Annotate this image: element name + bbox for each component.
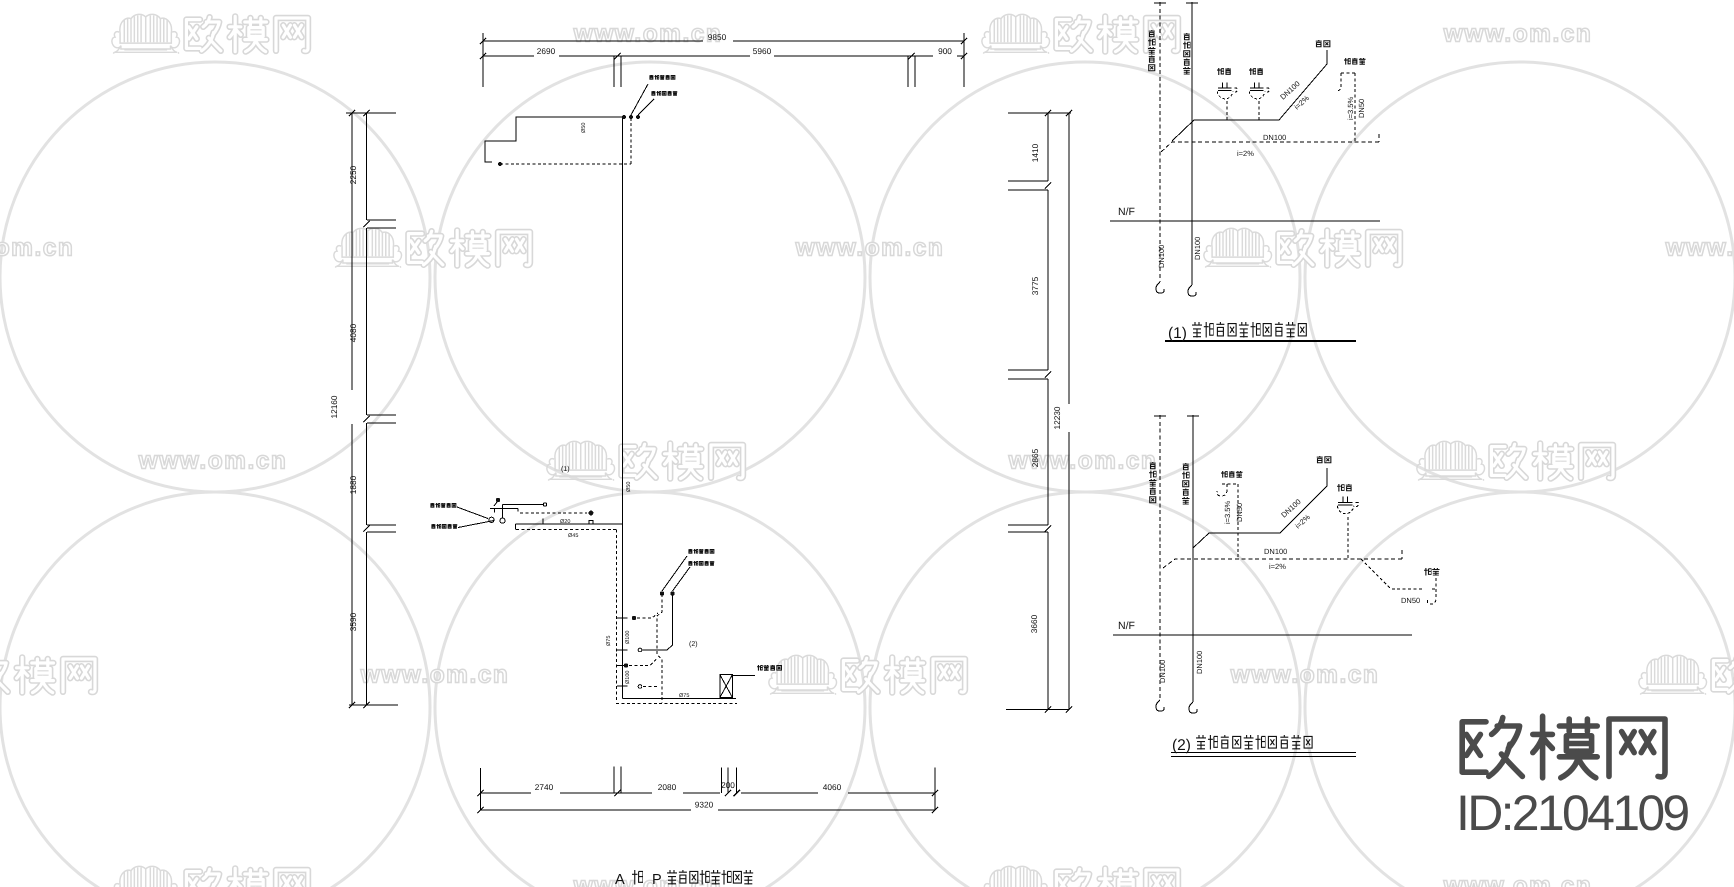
label 原有废水管 top xyxy=(649,75,653,79)
svg-text:i=2%: i=2% xyxy=(1269,562,1286,571)
label 原有废水管 kitchen xyxy=(430,503,434,507)
svg-text:9850: 9850 xyxy=(708,32,727,42)
branch row 665 xyxy=(617,665,628,667)
electric water heater box xyxy=(720,675,733,698)
top segment dimension line 2690/5960/900 xyxy=(483,55,964,57)
label 原有给水管 top xyxy=(651,91,655,95)
svg-text:200: 200 xyxy=(721,780,735,790)
svg-text:www.om.cn: www.om.cn xyxy=(1443,873,1593,887)
riser1 label 地漏 2 xyxy=(1249,68,1256,75)
riser2 label 座厕 xyxy=(1317,456,1323,463)
svg-text:i=2%: i=2% xyxy=(1237,149,1254,158)
bathroom pipe cluster dots xyxy=(660,591,664,595)
svg-text:3775: 3775 xyxy=(1030,276,1040,295)
svg-text:www.om.cn: www.om.cn xyxy=(1443,21,1593,48)
riser1 main dashed drain DN100 xyxy=(1160,134,1379,153)
svg-text:(2): (2) xyxy=(1172,737,1191,754)
svg-text:DN100: DN100 xyxy=(1279,497,1302,519)
svg-text:www.om.cn: www.om.cn xyxy=(1665,235,1734,262)
left overall dimension line 12160 xyxy=(351,113,353,705)
svg-text:Ø45: Ø45 xyxy=(568,533,578,539)
svg-text:DN100: DN100 xyxy=(1195,651,1204,674)
riser1 label 座厕 xyxy=(1316,40,1322,47)
svg-text:900: 900 xyxy=(938,46,952,56)
svg-text:DN100: DN100 xyxy=(1264,547,1287,556)
svg-text:1410: 1410 xyxy=(1030,143,1040,162)
svg-text:DN100: DN100 xyxy=(1158,660,1167,683)
right interior wall stubs xyxy=(1008,181,1048,532)
svg-text:2080: 2080 xyxy=(658,782,677,792)
svg-text:4080: 4080 xyxy=(348,323,358,342)
riser1 floor drains xyxy=(1217,83,1237,99)
label 电热水器 xyxy=(757,665,763,671)
label 原有污水管 bath xyxy=(688,561,692,565)
left wall/segment line xyxy=(366,113,368,705)
riser2 label 地漏 xyxy=(1337,484,1345,492)
right overall dimension line 12230 xyxy=(1068,113,1070,710)
left chain end ticks xyxy=(346,113,398,705)
svg-text:www.om.cn: www.om.cn xyxy=(138,448,288,475)
watermark logo lattice xyxy=(112,14,180,53)
svg-text:N/F: N/F xyxy=(1118,206,1135,218)
svg-text:2865: 2865 xyxy=(1030,448,1040,467)
title (2) double underline xyxy=(1171,753,1356,757)
svg-text:i=2%: i=2% xyxy=(1293,512,1312,530)
top dimension extension lines xyxy=(483,49,964,87)
svg-text:(1): (1) xyxy=(561,465,570,473)
brand text 欧模网 xyxy=(1462,718,1522,777)
dashed branch to waste dot xyxy=(518,509,587,513)
svg-text:i=3.5%: i=3.5% xyxy=(1346,97,1355,120)
riser1 stack label 原有废水管 xyxy=(1149,30,1155,37)
bottom dashed drain line xyxy=(616,702,737,704)
svg-text:DN50: DN50 xyxy=(1401,596,1420,605)
riser2 label 浴缸 xyxy=(1424,568,1432,576)
svg-text:(2): (2) xyxy=(689,640,698,648)
kitchen pipe cluster xyxy=(496,498,500,502)
riser1 existing waste stack (dashed) xyxy=(1159,2,1161,282)
supply pipe to wall xyxy=(516,523,623,525)
svg-text:www.om.cn: www.om.cn xyxy=(795,235,945,262)
svg-text:2250: 2250 xyxy=(348,165,358,184)
svg-text:3590: 3590 xyxy=(348,612,358,631)
svg-text:12160: 12160 xyxy=(329,395,339,418)
dashed wall-parallel drain line xyxy=(516,530,616,703)
riser2 main dashed drain DN100 xyxy=(1163,550,1402,568)
svg-text:DN50: DN50 xyxy=(1235,503,1244,522)
right chain end ticks xyxy=(1006,113,1071,710)
dashed duct line top-left xyxy=(500,118,631,164)
svg-text:Ø50: Ø50 xyxy=(581,123,587,133)
left interior wall stubs xyxy=(367,220,396,532)
svg-text:Ø20: Ø20 xyxy=(560,519,570,525)
svg-text:1880: 1880 xyxy=(348,475,358,494)
svg-text:Ø50: Ø50 xyxy=(626,482,632,492)
svg-text:www.om.cn: www.om.cn xyxy=(573,21,723,48)
svg-text:4060: 4060 xyxy=(823,782,842,792)
riser2 N/F floor line xyxy=(1113,634,1412,636)
riser1 label 地漏 1 xyxy=(1217,68,1224,75)
riser1 N/F floor line xyxy=(1110,220,1380,222)
riser2 wash basin connection xyxy=(1217,484,1238,559)
svg-text:9320: 9320 xyxy=(695,800,714,810)
svg-text:Ø100: Ø100 xyxy=(625,631,631,644)
title (1) underline xyxy=(1165,340,1356,342)
riser2 bathtub branch xyxy=(1361,559,1437,604)
svg-text:P: P xyxy=(652,872,662,887)
svg-text:3660: 3660 xyxy=(1029,614,1039,633)
svg-text:N/F: N/F xyxy=(1118,620,1135,632)
bathroom bottom wall xyxy=(623,698,737,700)
svg-text:12230: 12230 xyxy=(1052,406,1062,429)
svg-text:Ø75: Ø75 xyxy=(606,636,612,646)
top overall dimension line 9850 xyxy=(483,33,964,49)
label 原有废水管 bath xyxy=(688,549,692,553)
main vertical wall xyxy=(622,117,624,699)
riser2 solid branch xyxy=(1193,468,1327,548)
svg-text:DN100: DN100 xyxy=(1157,245,1166,268)
svg-text:Ø75: Ø75 xyxy=(679,693,689,699)
riser1 stack label 原有污水管 xyxy=(1184,33,1190,40)
svg-text:2740: 2740 xyxy=(535,782,554,792)
riser1 existing soil stack (solid) xyxy=(1191,2,1193,285)
svg-text:www.om.cn: www.om.cn xyxy=(360,662,510,689)
branch row 618 xyxy=(617,617,628,619)
riser connection dots at top wall xyxy=(622,115,626,119)
riser2 stack label 原有污水管 xyxy=(1183,463,1189,470)
right wall line xyxy=(1047,113,1049,710)
top-left stepped wall outline xyxy=(485,117,624,162)
riser1 solid branch xyxy=(1194,50,1327,120)
svg-text:DN50: DN50 xyxy=(1357,99,1366,118)
svg-text:DN100: DN100 xyxy=(1193,237,1202,260)
soil pipe run xyxy=(642,595,673,650)
leader lines from fixture labels xyxy=(457,507,494,528)
svg-text:2690: 2690 xyxy=(537,46,556,56)
bottom dimension extension lines xyxy=(481,767,936,810)
svg-text:i=2%: i=2% xyxy=(1292,93,1311,111)
bottom overall dimension line 9320 xyxy=(481,809,936,811)
riser2 stack label 原有废水管 xyxy=(1150,462,1156,469)
waste pipe dashed run xyxy=(657,594,662,703)
riser1 label 洗涤盆 xyxy=(1344,58,1351,65)
svg-text:Ø100: Ø100 xyxy=(625,671,631,684)
bottom segment dimension line 2740/2080/200/4060 xyxy=(481,792,936,794)
svg-text:5960: 5960 xyxy=(753,46,772,56)
label 原有污水管 kitchen xyxy=(431,524,435,528)
riser2 existing waste stack (dashed) xyxy=(1159,415,1161,700)
svg-text:www.om.cn: www.om.cn xyxy=(1230,662,1380,689)
svg-text:A: A xyxy=(615,872,625,887)
svg-text:(1): (1) xyxy=(1168,325,1187,342)
leader lines to pipe labels xyxy=(631,84,654,115)
svg-text:www.om.cn: www.om.cn xyxy=(0,235,74,262)
riser2 floor drain xyxy=(1337,497,1358,514)
branch row 686 xyxy=(617,685,628,687)
riser2 existing soil stack (solid) xyxy=(1192,415,1194,702)
riser1 wash basin connection xyxy=(1336,73,1355,141)
svg-text:ID:2104109: ID:2104109 xyxy=(1456,785,1688,841)
riser2 label 洗涤盆 xyxy=(1221,471,1228,478)
svg-text:i=3.5%: i=3.5% xyxy=(1223,501,1232,524)
svg-text:DN100: DN100 xyxy=(1263,133,1286,142)
